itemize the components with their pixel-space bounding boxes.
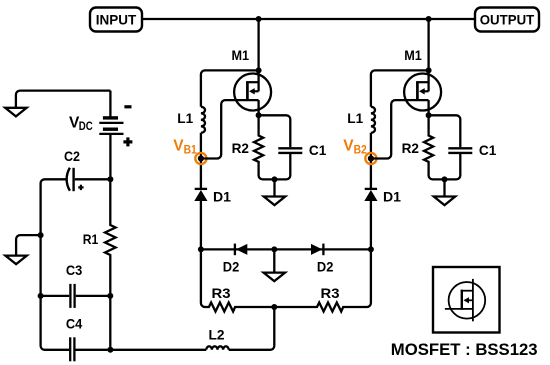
svg-text:D2: D2 <box>317 258 334 274</box>
diode D1 left <box>194 188 231 204</box>
svg-text:R1: R1 <box>83 231 99 247</box>
wire top rail INPUT to OUTPUT <box>142 18 475 20</box>
svg-text:R3: R3 <box>212 285 231 301</box>
svg-text:R2: R2 <box>402 140 420 156</box>
svg-text:C2: C2 <box>64 148 80 164</box>
wire L1 bottom to D1 left <box>200 133 202 189</box>
node C3 left junction <box>38 293 44 299</box>
wire C3 to C4 right link <box>109 296 111 350</box>
svg-text:V: V <box>343 138 354 155</box>
diode D2 right <box>311 244 334 275</box>
svg-text:D1: D1 <box>213 188 231 204</box>
ground R2C1 right <box>434 179 455 205</box>
svg-text:C4: C4 <box>66 316 83 332</box>
resistor R2 left <box>254 115 290 179</box>
wire D1 to bus left <box>200 201 202 249</box>
node source junction right <box>426 112 432 118</box>
resistor R3 left <box>201 249 274 311</box>
INPUT box <box>90 8 142 32</box>
capacitor C1 left <box>278 142 326 158</box>
wire middle bus <box>201 248 371 250</box>
wire gate path left <box>201 100 259 158</box>
capacitor C1 right <box>448 142 496 158</box>
svg-text:C1: C1 <box>479 142 497 158</box>
wire L1-top link right <box>371 70 429 106</box>
resistor R3 right <box>274 249 371 311</box>
wire center junction down to L2 <box>229 307 275 350</box>
battery VDC <box>69 91 132 180</box>
MOSFET legend box <box>433 267 500 333</box>
inductor L2 coil <box>206 346 228 350</box>
ground top left <box>5 91 110 117</box>
wire source vertical left <box>257 100 259 115</box>
resistor R1 <box>105 179 116 296</box>
ground left middle <box>5 235 40 264</box>
ground bus center <box>264 249 285 281</box>
svg-text:R3: R3 <box>321 285 340 301</box>
ground R2C1 left <box>264 179 285 205</box>
node left rail ground tap <box>38 232 44 238</box>
node R3 center junction <box>271 304 277 310</box>
svg-text:M1: M1 <box>232 47 250 63</box>
capacitor C3 <box>41 262 111 308</box>
svg-text:D1: D1 <box>383 188 401 204</box>
svg-text:C1: C1 <box>309 142 327 158</box>
wire D1 to bus right <box>370 201 372 249</box>
wire bottom rail C4 to L2 <box>76 349 207 351</box>
wire C1 top link right <box>429 115 461 147</box>
capacitor C2 <box>41 148 111 350</box>
node drain junction left <box>256 67 262 73</box>
node VB2 <box>368 155 374 161</box>
node bus right end <box>368 246 374 252</box>
svg-text:C3: C3 <box>66 262 83 278</box>
wire drain vertical left <box>257 19 259 91</box>
node drain junction right <box>426 67 432 73</box>
svg-text:B2: B2 <box>354 145 367 157</box>
svg-text:V: V <box>173 138 184 155</box>
svg-text:DC: DC <box>79 121 93 133</box>
diode D2 left <box>223 244 248 275</box>
node C3 right junction <box>107 293 113 299</box>
node R2C1 ground junction right <box>442 176 448 182</box>
inductor L1 right coil <box>371 107 375 133</box>
node C4 right junction <box>107 347 113 353</box>
node top rail left junction <box>256 16 262 22</box>
node R2C1 ground junction left <box>272 176 278 182</box>
node top rail right junction <box>426 16 432 22</box>
resistor R2 right <box>424 115 460 179</box>
transistor MOSFET M1 right symbol <box>404 47 441 110</box>
svg-text:L2: L2 <box>209 327 225 343</box>
svg-text:B1: B1 <box>184 145 198 157</box>
svg-text:R2: R2 <box>232 140 250 156</box>
svg-text:L1: L1 <box>347 110 363 126</box>
svg-text:INPUT: INPUT <box>96 11 137 27</box>
wire drain vertical right <box>427 19 429 91</box>
wire gate path right <box>371 100 429 158</box>
wire L1-top link left <box>201 70 259 106</box>
diode D1 right <box>364 188 401 204</box>
svg-text:L1: L1 <box>177 110 193 126</box>
capacitor C4 <box>66 316 83 362</box>
node bus left end <box>198 246 204 252</box>
node bus center <box>271 246 277 252</box>
op-amp: MOSFET M1 left symbol <box>232 47 272 110</box>
svg-text:OUTPUT: OUTPUT <box>480 12 535 28</box>
inductor L1 left coil <box>201 107 205 133</box>
svg-text:D2: D2 <box>223 258 240 274</box>
svg-text:M1: M1 <box>404 47 422 63</box>
svg-text:MOSFET : BSS123: MOSFET : BSS123 <box>391 341 538 359</box>
wire C1 top link left <box>259 115 291 147</box>
wire source vertical right <box>427 100 429 115</box>
wire L1 bottom to D1 right <box>370 133 372 189</box>
node battery C2 junction <box>107 176 113 182</box>
node source junction left <box>256 112 262 118</box>
OUTPUT box <box>475 8 539 32</box>
node VB1 <box>198 155 204 161</box>
